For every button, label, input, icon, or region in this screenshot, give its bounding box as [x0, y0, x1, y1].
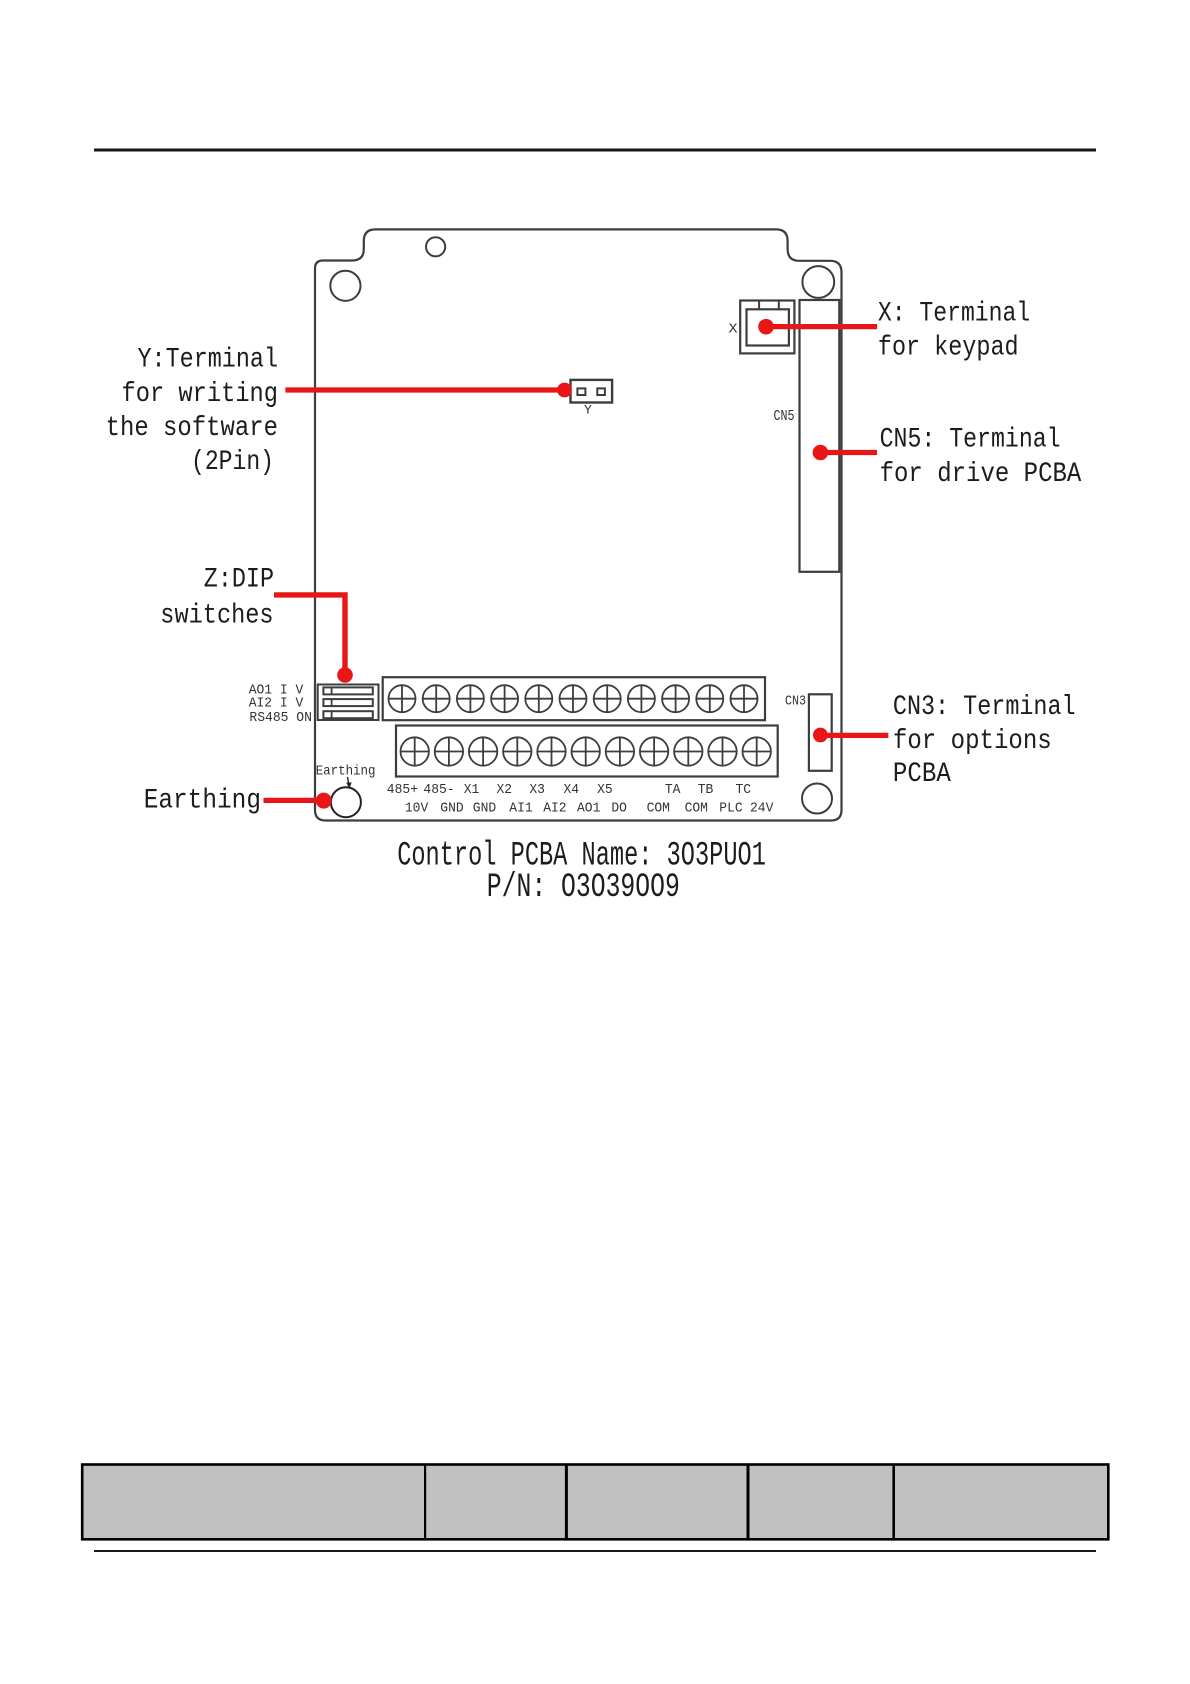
- svg-text:for options: for options: [893, 726, 1052, 757]
- screw terminal bottom row 1: [401, 737, 429, 765]
- earthing pad: [331, 787, 361, 817]
- screw terminal top row 6: [560, 685, 587, 712]
- screw terminal bottom row 3: [469, 737, 497, 765]
- connector X inner: [747, 309, 789, 345]
- screw terminal bottom row 2: [435, 737, 463, 765]
- svg-text:GND: GND: [440, 800, 463, 816]
- screw terminal top row 5: [525, 685, 552, 712]
- svg-text:TC: TC: [736, 782, 752, 798]
- connector X tabs: [758, 301, 760, 310]
- svg-text:CN3: Terminal: CN3: Terminal: [893, 692, 1076, 723]
- svg-text:10V: 10V: [405, 800, 429, 816]
- earthing arrow: [348, 777, 350, 786]
- svg-text:RS485 ON: RS485 ON: [249, 710, 312, 726]
- screw terminal top row 8: [628, 685, 655, 712]
- svg-text:DO: DO: [611, 800, 627, 816]
- svg-text:for keypad: for keypad: [878, 333, 1019, 364]
- terminal strip top row: [383, 677, 765, 720]
- svg-text:CN5: Terminal: CN5: Terminal: [880, 424, 1061, 455]
- screw terminal top row 11: [731, 685, 758, 712]
- connector X outer: [740, 301, 794, 354]
- svg-text:X: X: [729, 322, 739, 338]
- svg-text:AI2: AI2: [543, 800, 566, 816]
- svg-text:485-: 485-: [423, 782, 454, 798]
- callout text: Y terminal: [106, 345, 278, 479]
- screw terminal bottom row 7: [606, 737, 634, 765]
- svg-text:Y:Terminal: Y:Terminal: [138, 345, 279, 376]
- terminal labels row2: [405, 800, 774, 816]
- screw terminal bottom row 6: [572, 737, 600, 765]
- red callout: Y terminal: [264, 319, 889, 809]
- mounting hole top-left: [330, 271, 360, 301]
- svg-text:X2: X2: [497, 782, 513, 798]
- svg-text:COM: COM: [647, 800, 670, 816]
- connector Y (2pin jumper): [571, 380, 613, 403]
- mounting hole top-right: [802, 266, 834, 298]
- mounting hole bottom-right: [802, 784, 832, 814]
- screw terminal top row 2: [423, 685, 450, 712]
- svg-text:X3: X3: [529, 782, 545, 798]
- svg-text:Earthing: Earthing: [316, 763, 376, 779]
- Earthing leader: [264, 798, 321, 803]
- svg-text:COM: COM: [685, 800, 708, 816]
- svg-text:TB: TB: [698, 782, 714, 798]
- svg-text:Z:DIP: Z:DIP: [204, 565, 274, 596]
- svg-text:AI1: AI1: [509, 800, 532, 816]
- svg-text:for writing: for writing: [122, 379, 279, 410]
- svg-text:X5: X5: [597, 782, 613, 798]
- PCB board outline: [315, 229, 842, 820]
- screw terminal bottom row 9: [674, 737, 702, 765]
- DIP bar 3: [323, 711, 372, 718]
- svg-text:AO1: AO1: [577, 800, 600, 816]
- CN5 leader: [824, 450, 877, 455]
- screw terminal top row 4: [491, 685, 518, 712]
- svg-text:for drive PCBA: for drive PCBA: [880, 459, 1082, 490]
- small hole top: [426, 237, 445, 256]
- svg-text:X4: X4: [564, 782, 580, 798]
- screw terminal top row 3: [457, 685, 484, 712]
- screw terminal bottom row 4: [503, 737, 531, 765]
- svg-text:(2Pin): (2Pin): [191, 447, 274, 478]
- callout text: CN3: [893, 692, 1076, 790]
- svg-text:GND: GND: [473, 800, 496, 816]
- terminal labels row1: [387, 782, 751, 798]
- svg-text:P/N: O3O39OO9: P/N: O3O39OO9: [487, 869, 680, 907]
- svg-text:PCBA: PCBA: [893, 759, 951, 790]
- screw terminal bottom row 10: [708, 737, 736, 765]
- svg-text:TA: TA: [665, 782, 681, 798]
- svg-text:the software: the software: [106, 413, 278, 444]
- DIP bar 2: [323, 699, 372, 706]
- CN3 leader: [824, 733, 888, 738]
- svg-text:X1: X1: [464, 782, 480, 798]
- DIP switch block Z: [318, 685, 379, 721]
- svg-text:485+: 485+: [387, 782, 418, 798]
- callout text: X terminal: [878, 298, 1030, 363]
- screw terminal top row 9: [662, 685, 689, 712]
- svg-text:PLC: PLC: [719, 800, 742, 816]
- top rule: [94, 149, 1096, 152]
- screw terminal bottom row 5: [537, 737, 565, 765]
- screw terminal top row 1: [389, 685, 416, 712]
- svg-text:Y: Y: [584, 403, 592, 418]
- callout text: Z DIP: [160, 565, 274, 632]
- callout text: CN5: [880, 424, 1082, 490]
- screw terminal top row 7: [594, 685, 621, 712]
- bottom table: [82, 1465, 1108, 1540]
- screw terminal bottom row 8: [640, 737, 668, 765]
- Z leader: [274, 595, 345, 672]
- screw terminal bottom row 11: [743, 737, 771, 765]
- svg-text:CN5: CN5: [774, 409, 795, 425]
- svg-text:Earthing: Earthing: [144, 786, 261, 817]
- svg-text:CN3: CN3: [785, 694, 806, 710]
- screw terminal top row 10: [696, 685, 723, 712]
- terminal strip bottom row: [396, 726, 778, 777]
- Y leader: [285, 387, 560, 392]
- connector CN5: [800, 300, 840, 572]
- svg-text:X: Terminal: X: Terminal: [878, 298, 1030, 329]
- bottom rule: [94, 1550, 1096, 1552]
- svg-text:switches: switches: [160, 601, 273, 632]
- X leader: [770, 324, 877, 329]
- svg-text:24V: 24V: [750, 800, 774, 816]
- connector CN3: [809, 694, 832, 771]
- DIP bar 1: [323, 687, 372, 694]
